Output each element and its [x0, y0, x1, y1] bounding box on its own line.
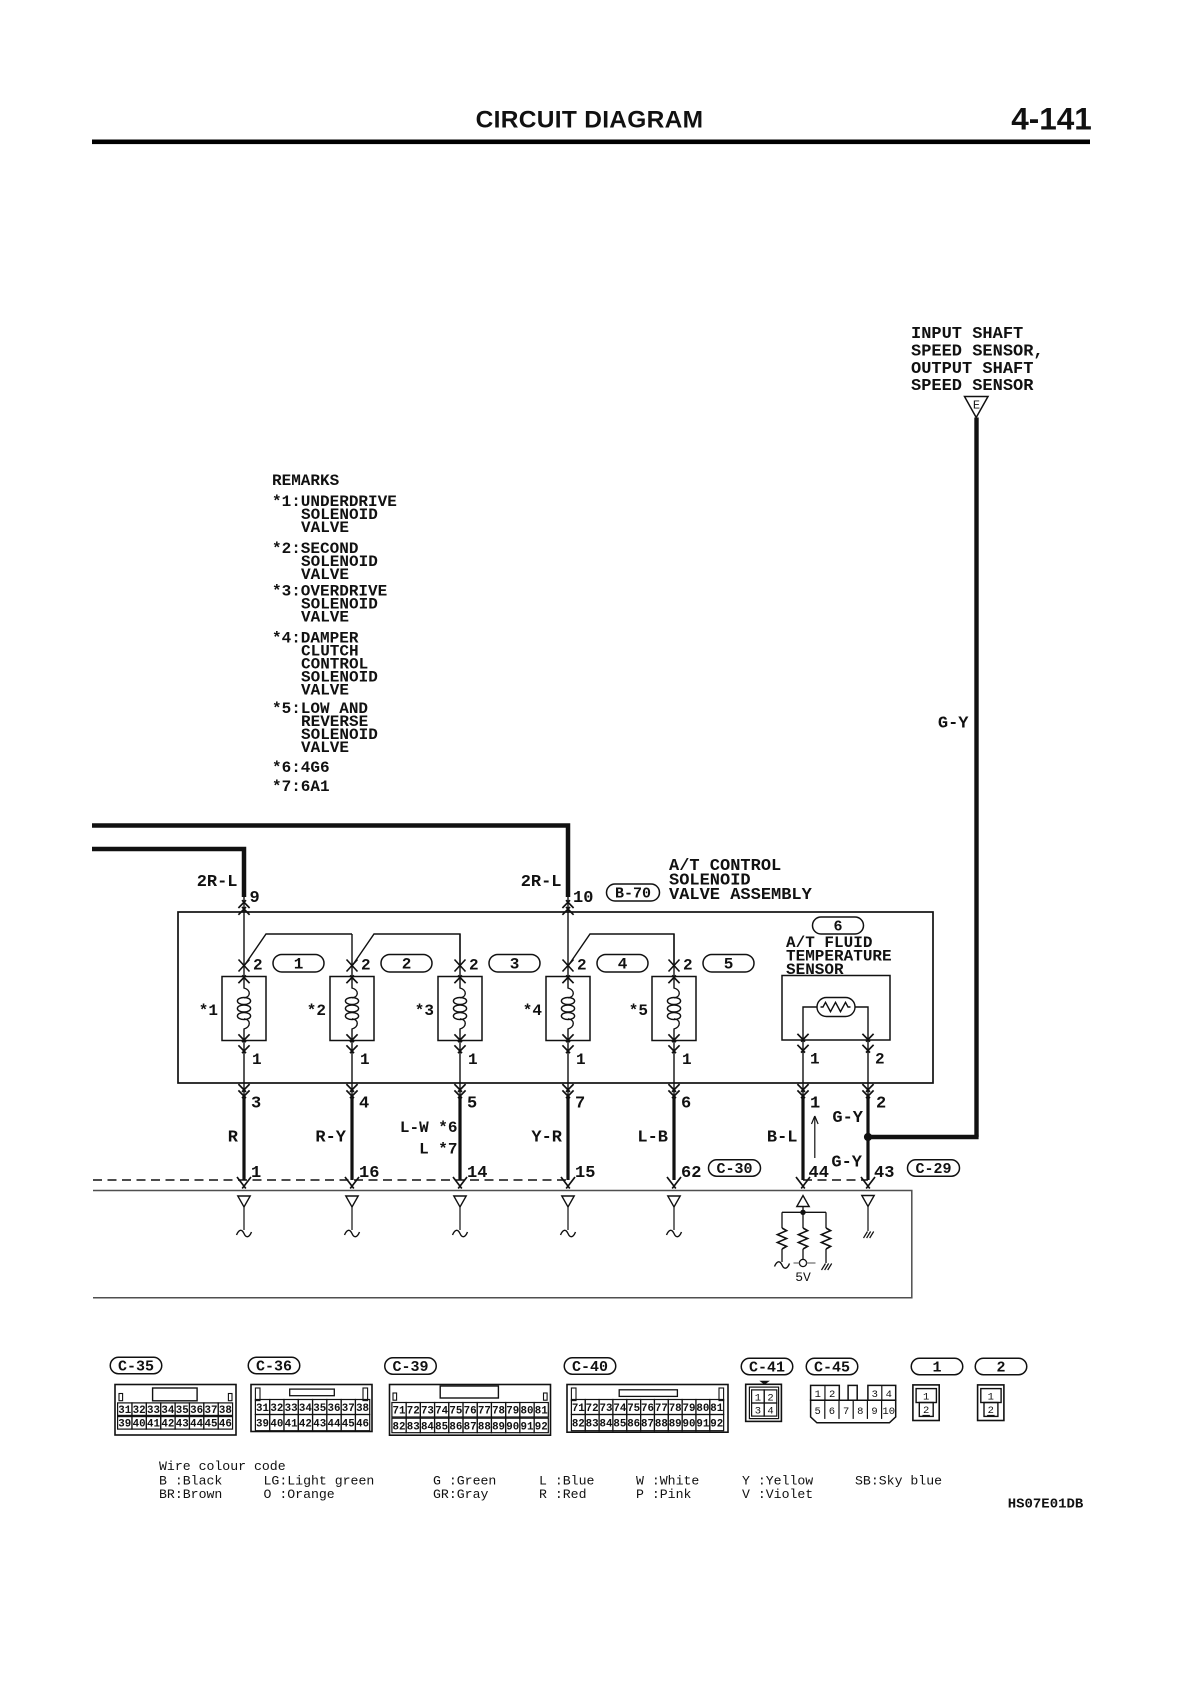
svg-text:35: 35 [313, 1403, 326, 1415]
svg-text:43: 43 [874, 1164, 894, 1183]
solenoid *5 pin 1 arrows [668, 1034, 676, 1042]
wire 2R-L to pin 10 (thick) [92, 826, 568, 898]
svg-text:40: 40 [270, 1418, 283, 1430]
svg-text:2: 2 [253, 957, 263, 975]
svg-text:36: 36 [190, 1405, 203, 1417]
svg-text:83: 83 [407, 1421, 420, 1433]
svg-text:74: 74 [613, 1403, 626, 1415]
solenoid *1 pin 2 arrow [239, 960, 250, 972]
svg-text:92: 92 [710, 1418, 723, 1430]
svg-text:45: 45 [342, 1418, 355, 1430]
svg-text:E: E [973, 399, 980, 413]
svg-text:P :Pink: P :Pink [636, 1487, 691, 1502]
svg-text:85: 85 [613, 1418, 626, 1430]
svg-text:74: 74 [435, 1406, 448, 1418]
svg-text:33: 33 [147, 1405, 160, 1417]
connector label C-41 [741, 1358, 793, 1375]
svg-text:HS07E01DB: HS07E01DB [1008, 1497, 1084, 1513]
svg-text:VALVE: VALVE [301, 566, 349, 584]
svg-text:46: 46 [219, 1419, 232, 1431]
svg-text:R :Red: R :Red [539, 1487, 586, 1502]
svg-text:1: 1 [923, 1391, 929, 1403]
svg-text:C-35: C-35 [118, 1359, 154, 1376]
svg-text:1: 1 [682, 1051, 692, 1069]
svg-text:B-L: B-L [767, 1129, 798, 1148]
svg-text:VALVE: VALVE [301, 609, 349, 627]
svg-text:83: 83 [586, 1418, 599, 1430]
svg-text:44: 44 [190, 1419, 203, 1431]
control unit input at x=674 [668, 1196, 680, 1207]
solenoid *4 feed node [567, 912, 569, 966]
svg-text:2: 2 [361, 957, 371, 975]
direction arrow beside wire 44 [814, 1117, 816, 1158]
solenoid circuit oval 1 [273, 954, 324, 972]
connector label 2 [975, 1358, 1027, 1375]
svg-text:75: 75 [449, 1406, 462, 1418]
solenoid *2 coil box [330, 977, 374, 1041]
svg-text:77: 77 [478, 1406, 491, 1418]
svg-text:C-40: C-40 [572, 1359, 608, 1376]
connector C-29 [908, 1160, 960, 1177]
svg-text:O :Orange: O :Orange [264, 1487, 335, 1502]
svg-text:42: 42 [299, 1418, 312, 1430]
svg-text:C-45: C-45 [814, 1360, 850, 1377]
5V pull-up network [797, 1196, 809, 1207]
wire R pin 3 to 1 [243, 1083, 245, 1096]
resistor left [781, 1212, 783, 1228]
junction dot at wire 43 [864, 1133, 872, 1141]
control unit input at x=460 [454, 1196, 466, 1207]
svg-text:L-B: L-B [637, 1129, 668, 1148]
bus wire solenoid 4 to 5 [568, 934, 674, 966]
solenoid *3 feed node [459, 934, 461, 977]
svg-text:3: 3 [510, 956, 520, 974]
A/T control solenoid valve assembly box [178, 912, 933, 1083]
connector label C-35 [110, 1357, 162, 1374]
svg-text:4: 4 [618, 956, 628, 974]
svg-text:*2: *2 [307, 1002, 326, 1020]
connector label 1 [911, 1358, 963, 1375]
svg-text:VALVE ASSEMBLY: VALVE ASSEMBLY [669, 886, 813, 905]
svg-text:38: 38 [356, 1403, 369, 1415]
svg-text:SPEED SENSOR,: SPEED SENSOR, [911, 342, 1044, 361]
svg-text:7: 7 [843, 1406, 849, 1418]
resistor middle to 5V [802, 1214, 804, 1228]
svg-text:2: 2 [469, 957, 479, 975]
svg-text:BR:Brown: BR:Brown [159, 1487, 222, 1502]
wire L-W pin 5 to 14 [459, 1083, 461, 1096]
svg-text:1: 1 [294, 956, 304, 974]
svg-text:SENSOR: SENSOR [786, 961, 844, 979]
svg-text:G-Y: G-Y [832, 1109, 863, 1128]
svg-text:81: 81 [710, 1403, 723, 1415]
svg-text:4: 4 [886, 1389, 892, 1401]
header rule [92, 140, 1090, 145]
solenoid *3 pin 2 arrow [455, 960, 466, 972]
solenoid *3 coil [460, 977, 465, 998]
svg-text:62: 62 [681, 1164, 701, 1183]
svg-text:37: 37 [342, 1403, 355, 1415]
sensor wires to pins 1 and 2 [803, 1007, 817, 1083]
connector label C-45 [806, 1358, 858, 1375]
svg-text:R: R [228, 1129, 239, 1148]
svg-text:2: 2 [875, 1051, 885, 1069]
solenoid *2 pin 1 arrows [346, 1034, 354, 1042]
solenoid *5 coil box [652, 977, 696, 1041]
solenoid circuit oval 3 [489, 954, 540, 972]
svg-text:71: 71 [572, 1403, 585, 1415]
svg-text:1: 1 [810, 1051, 820, 1069]
solenoid *1 pin 1 arrows [238, 1034, 246, 1042]
svg-text:R-Y: R-Y [315, 1129, 346, 1148]
svg-text:86: 86 [627, 1418, 640, 1430]
svg-text:76: 76 [641, 1403, 654, 1415]
connector C-35 pinout [115, 1385, 236, 1436]
solenoid *5 feed node [673, 934, 675, 977]
svg-text:B-70: B-70 [615, 886, 651, 903]
connector label C-39 [385, 1358, 437, 1375]
svg-text:8: 8 [857, 1406, 863, 1418]
solenoid *2 coil [352, 977, 357, 998]
A/T fluid temperature sensor box [782, 976, 890, 1041]
solenoid *3 pin 1 arrows [454, 1034, 462, 1042]
svg-text:OUTPUT SHAFT: OUTPUT SHAFT [911, 360, 1033, 379]
connector label C-40 [564, 1358, 616, 1375]
svg-text:90: 90 [683, 1418, 696, 1430]
svg-text:5: 5 [467, 1095, 477, 1114]
svg-text:42: 42 [161, 1419, 174, 1431]
svg-text:3: 3 [755, 1405, 761, 1417]
wire Y-R pin 7 to 15 [567, 1083, 569, 1096]
svg-text:2: 2 [829, 1389, 835, 1401]
svg-text:C-29: C-29 [915, 1161, 951, 1178]
svg-text:46: 46 [356, 1418, 369, 1430]
svg-text:87: 87 [464, 1421, 477, 1433]
svg-text:32: 32 [270, 1403, 283, 1415]
svg-text:84: 84 [600, 1418, 613, 1430]
thermistor element [817, 998, 855, 1017]
svg-text:36: 36 [328, 1403, 341, 1415]
svg-text:7: 7 [575, 1095, 585, 1114]
solenoid *4 pin 2 arrow [563, 960, 574, 972]
svg-text:3: 3 [872, 1389, 878, 1401]
svg-text:2: 2 [402, 956, 412, 974]
svg-text:86: 86 [449, 1421, 462, 1433]
bus wire solenoid 1 to 2 [244, 934, 352, 966]
svg-text:REMARKS: REMARKS [272, 472, 340, 490]
svg-text:SPEED SENSOR: SPEED SENSOR [911, 377, 1034, 396]
svg-text:GR:Gray: GR:Gray [433, 1487, 488, 1502]
svg-text:39: 39 [118, 1419, 131, 1431]
svg-text:SB:Sky blue: SB:Sky blue [855, 1474, 942, 1489]
svg-text:34: 34 [299, 1403, 312, 1415]
entry arrows pin 9 [243, 897, 245, 912]
connector 1 pinout [913, 1385, 939, 1421]
svg-text:73: 73 [421, 1406, 434, 1418]
svg-text:1: 1 [576, 1051, 586, 1069]
svg-text:L *7: L *7 [419, 1141, 457, 1159]
svg-text:38: 38 [219, 1405, 232, 1417]
svg-text:1: 1 [252, 1051, 262, 1069]
svg-text:4: 4 [359, 1095, 369, 1114]
svg-text:71: 71 [393, 1406, 406, 1418]
svg-text:81: 81 [535, 1406, 548, 1418]
wire B-L pin 1 to 44 [802, 1083, 804, 1096]
svg-text:82: 82 [572, 1418, 585, 1430]
svg-text:1: 1 [988, 1391, 994, 1403]
solenoid *4 coil [568, 977, 573, 998]
solenoid circuit oval 2 [381, 954, 432, 972]
connector boundary dashed line [93, 1179, 568, 1181]
svg-text:75: 75 [627, 1403, 640, 1415]
svg-text:88: 88 [478, 1421, 491, 1433]
svg-text:92: 92 [535, 1421, 548, 1433]
wire R-Y pin 4 to 16 [351, 1083, 353, 1096]
svg-text:91: 91 [696, 1418, 709, 1430]
svg-text:*1: *1 [199, 1002, 218, 1020]
svg-text:4: 4 [767, 1405, 773, 1417]
svg-text:10: 10 [573, 889, 593, 908]
svg-text:10: 10 [882, 1406, 895, 1418]
svg-text:78: 78 [669, 1403, 682, 1415]
control unit box [93, 1191, 912, 1298]
solenoid *3 coil box [438, 977, 482, 1041]
svg-text:*3: *3 [415, 1002, 434, 1020]
svg-text:VALVE: VALVE [301, 519, 349, 537]
svg-text:31: 31 [256, 1403, 269, 1415]
svg-text:43: 43 [313, 1418, 326, 1430]
svg-text:88: 88 [655, 1418, 668, 1430]
svg-text:1: 1 [810, 1095, 820, 1114]
svg-text:1: 1 [360, 1051, 370, 1069]
svg-text:44: 44 [328, 1418, 341, 1430]
solenoid *1 feed node [243, 912, 245, 966]
svg-text:34: 34 [161, 1405, 174, 1417]
svg-text:76: 76 [464, 1406, 477, 1418]
solenoid *4 coil box [546, 977, 590, 1041]
svg-text:6: 6 [829, 1406, 835, 1418]
svg-text:41: 41 [147, 1419, 160, 1431]
solenoid circuit oval 5 [703, 954, 754, 972]
svg-text:90: 90 [506, 1421, 519, 1433]
svg-text:31: 31 [118, 1405, 131, 1417]
svg-text:78: 78 [492, 1406, 505, 1418]
svg-text:V :Violet: V :Violet [742, 1487, 813, 1502]
control unit input at x=568 [562, 1196, 574, 1207]
wire G-Y pin 2 to 43 [867, 1083, 869, 1096]
svg-text:G-Y: G-Y [938, 715, 969, 734]
svg-text:2R-L: 2R-L [521, 873, 562, 892]
svg-text:C-39: C-39 [392, 1359, 428, 1376]
control unit input at x=244 [238, 1196, 250, 1207]
svg-text:*4: *4 [523, 1002, 543, 1020]
svg-text:*7:6A1: *7:6A1 [272, 778, 330, 796]
svg-text:*6:4G6: *6:4G6 [272, 759, 330, 777]
svg-text:G-Y: G-Y [831, 1154, 862, 1173]
svg-text:*5: *5 [629, 1002, 648, 1020]
svg-text:72: 72 [407, 1406, 420, 1418]
connector C-45 pinout [811, 1400, 896, 1423]
svg-text:89: 89 [492, 1421, 505, 1433]
solenoid *2 feed node [351, 934, 353, 977]
svg-text:39: 39 [256, 1418, 269, 1430]
bus wire solenoid 2 to 3 [352, 934, 460, 966]
svg-text:1: 1 [932, 1360, 941, 1377]
svg-text:73: 73 [600, 1403, 613, 1415]
svg-text:CIRCUIT DIAGRAM: CIRCUIT DIAGRAM [476, 107, 704, 134]
svg-text:15: 15 [575, 1164, 595, 1183]
svg-text:43: 43 [176, 1419, 189, 1431]
entry arrows pin 10 [567, 897, 569, 912]
svg-text:5: 5 [815, 1406, 821, 1418]
svg-text:2R-L: 2R-L [197, 873, 238, 892]
svg-text:33: 33 [285, 1403, 298, 1415]
svg-text:77: 77 [655, 1403, 668, 1415]
svg-text:45: 45 [205, 1419, 218, 1431]
connector C-40 pinout [567, 1385, 728, 1433]
solenoid *4 pin 1 arrows [562, 1034, 570, 1042]
control unit input at x=352 [346, 1196, 358, 1207]
wire L-B pin 6 to 62 [673, 1083, 675, 1096]
svg-text:79: 79 [683, 1403, 696, 1415]
svg-text:82: 82 [393, 1421, 406, 1433]
solenoid *1 coil [244, 977, 249, 998]
solenoid *2 pin 2 arrow [347, 960, 358, 972]
svg-text:84: 84 [421, 1421, 434, 1433]
svg-text:79: 79 [506, 1406, 519, 1418]
svg-text:35: 35 [176, 1405, 189, 1417]
svg-text:4-141: 4-141 [1011, 101, 1092, 137]
connector C-30 [709, 1160, 761, 1177]
svg-text:C-30: C-30 [716, 1161, 752, 1178]
connector C-41 pinout [759, 1381, 770, 1385]
sensor pin arrows [797, 1034, 805, 1042]
solenoid *5 pin 2 arrow [669, 960, 680, 972]
svg-text:5V: 5V [795, 1270, 811, 1285]
svg-text:37: 37 [205, 1405, 218, 1417]
svg-text:1: 1 [468, 1051, 478, 1069]
svg-text:41: 41 [285, 1418, 298, 1430]
connector label C-36 [248, 1357, 300, 1374]
svg-text:6: 6 [681, 1095, 691, 1114]
svg-text:89: 89 [669, 1418, 682, 1430]
connector 2 pinout [978, 1385, 1004, 1421]
svg-text:9: 9 [250, 889, 260, 908]
svg-text:VALVE: VALVE [301, 739, 349, 757]
svg-text:C-36: C-36 [256, 1359, 292, 1376]
svg-text:80: 80 [696, 1403, 709, 1415]
solenoid *1 coil box [222, 977, 266, 1041]
svg-text:32: 32 [133, 1405, 146, 1417]
svg-text:2: 2 [577, 957, 587, 975]
svg-text:5: 5 [724, 956, 734, 974]
connector B-70 [607, 884, 660, 901]
svg-text:INPUT SHAFT: INPUT SHAFT [911, 325, 1023, 344]
svg-text:72: 72 [586, 1403, 599, 1415]
svg-text:L-W *6: L-W *6 [400, 1119, 458, 1137]
svg-text:C-41: C-41 [749, 1360, 785, 1377]
svg-text:2: 2 [996, 1360, 1005, 1377]
svg-text:40: 40 [133, 1419, 146, 1431]
connector pin oval 6 [813, 917, 864, 934]
wire G-Y from speed sensors [974, 418, 978, 1137]
svg-text:Wire colour code: Wire colour code [159, 1459, 286, 1474]
svg-text:2: 2 [683, 957, 693, 975]
connector C-39 pinout [390, 1385, 551, 1436]
svg-text:87: 87 [641, 1418, 654, 1430]
svg-text:1: 1 [815, 1389, 821, 1401]
svg-text:85: 85 [435, 1421, 448, 1433]
svg-text:2: 2 [876, 1095, 886, 1114]
solenoid circuit oval 4 [597, 954, 648, 972]
svg-text:Y-R: Y-R [531, 1129, 562, 1148]
resistor right to ground [825, 1212, 827, 1228]
svg-text:91: 91 [521, 1421, 534, 1433]
svg-text:80: 80 [521, 1406, 534, 1418]
node E triangle [965, 397, 989, 418]
connector C-36 pinout [251, 1385, 372, 1432]
svg-text:3: 3 [251, 1095, 261, 1114]
svg-text:VALVE: VALVE [301, 682, 349, 700]
wire 2R-L to pin 9 (thick) [92, 849, 244, 897]
solenoid *5 coil [674, 977, 679, 998]
svg-text:9: 9 [871, 1406, 877, 1418]
ground input wire 43 [862, 1196, 874, 1207]
